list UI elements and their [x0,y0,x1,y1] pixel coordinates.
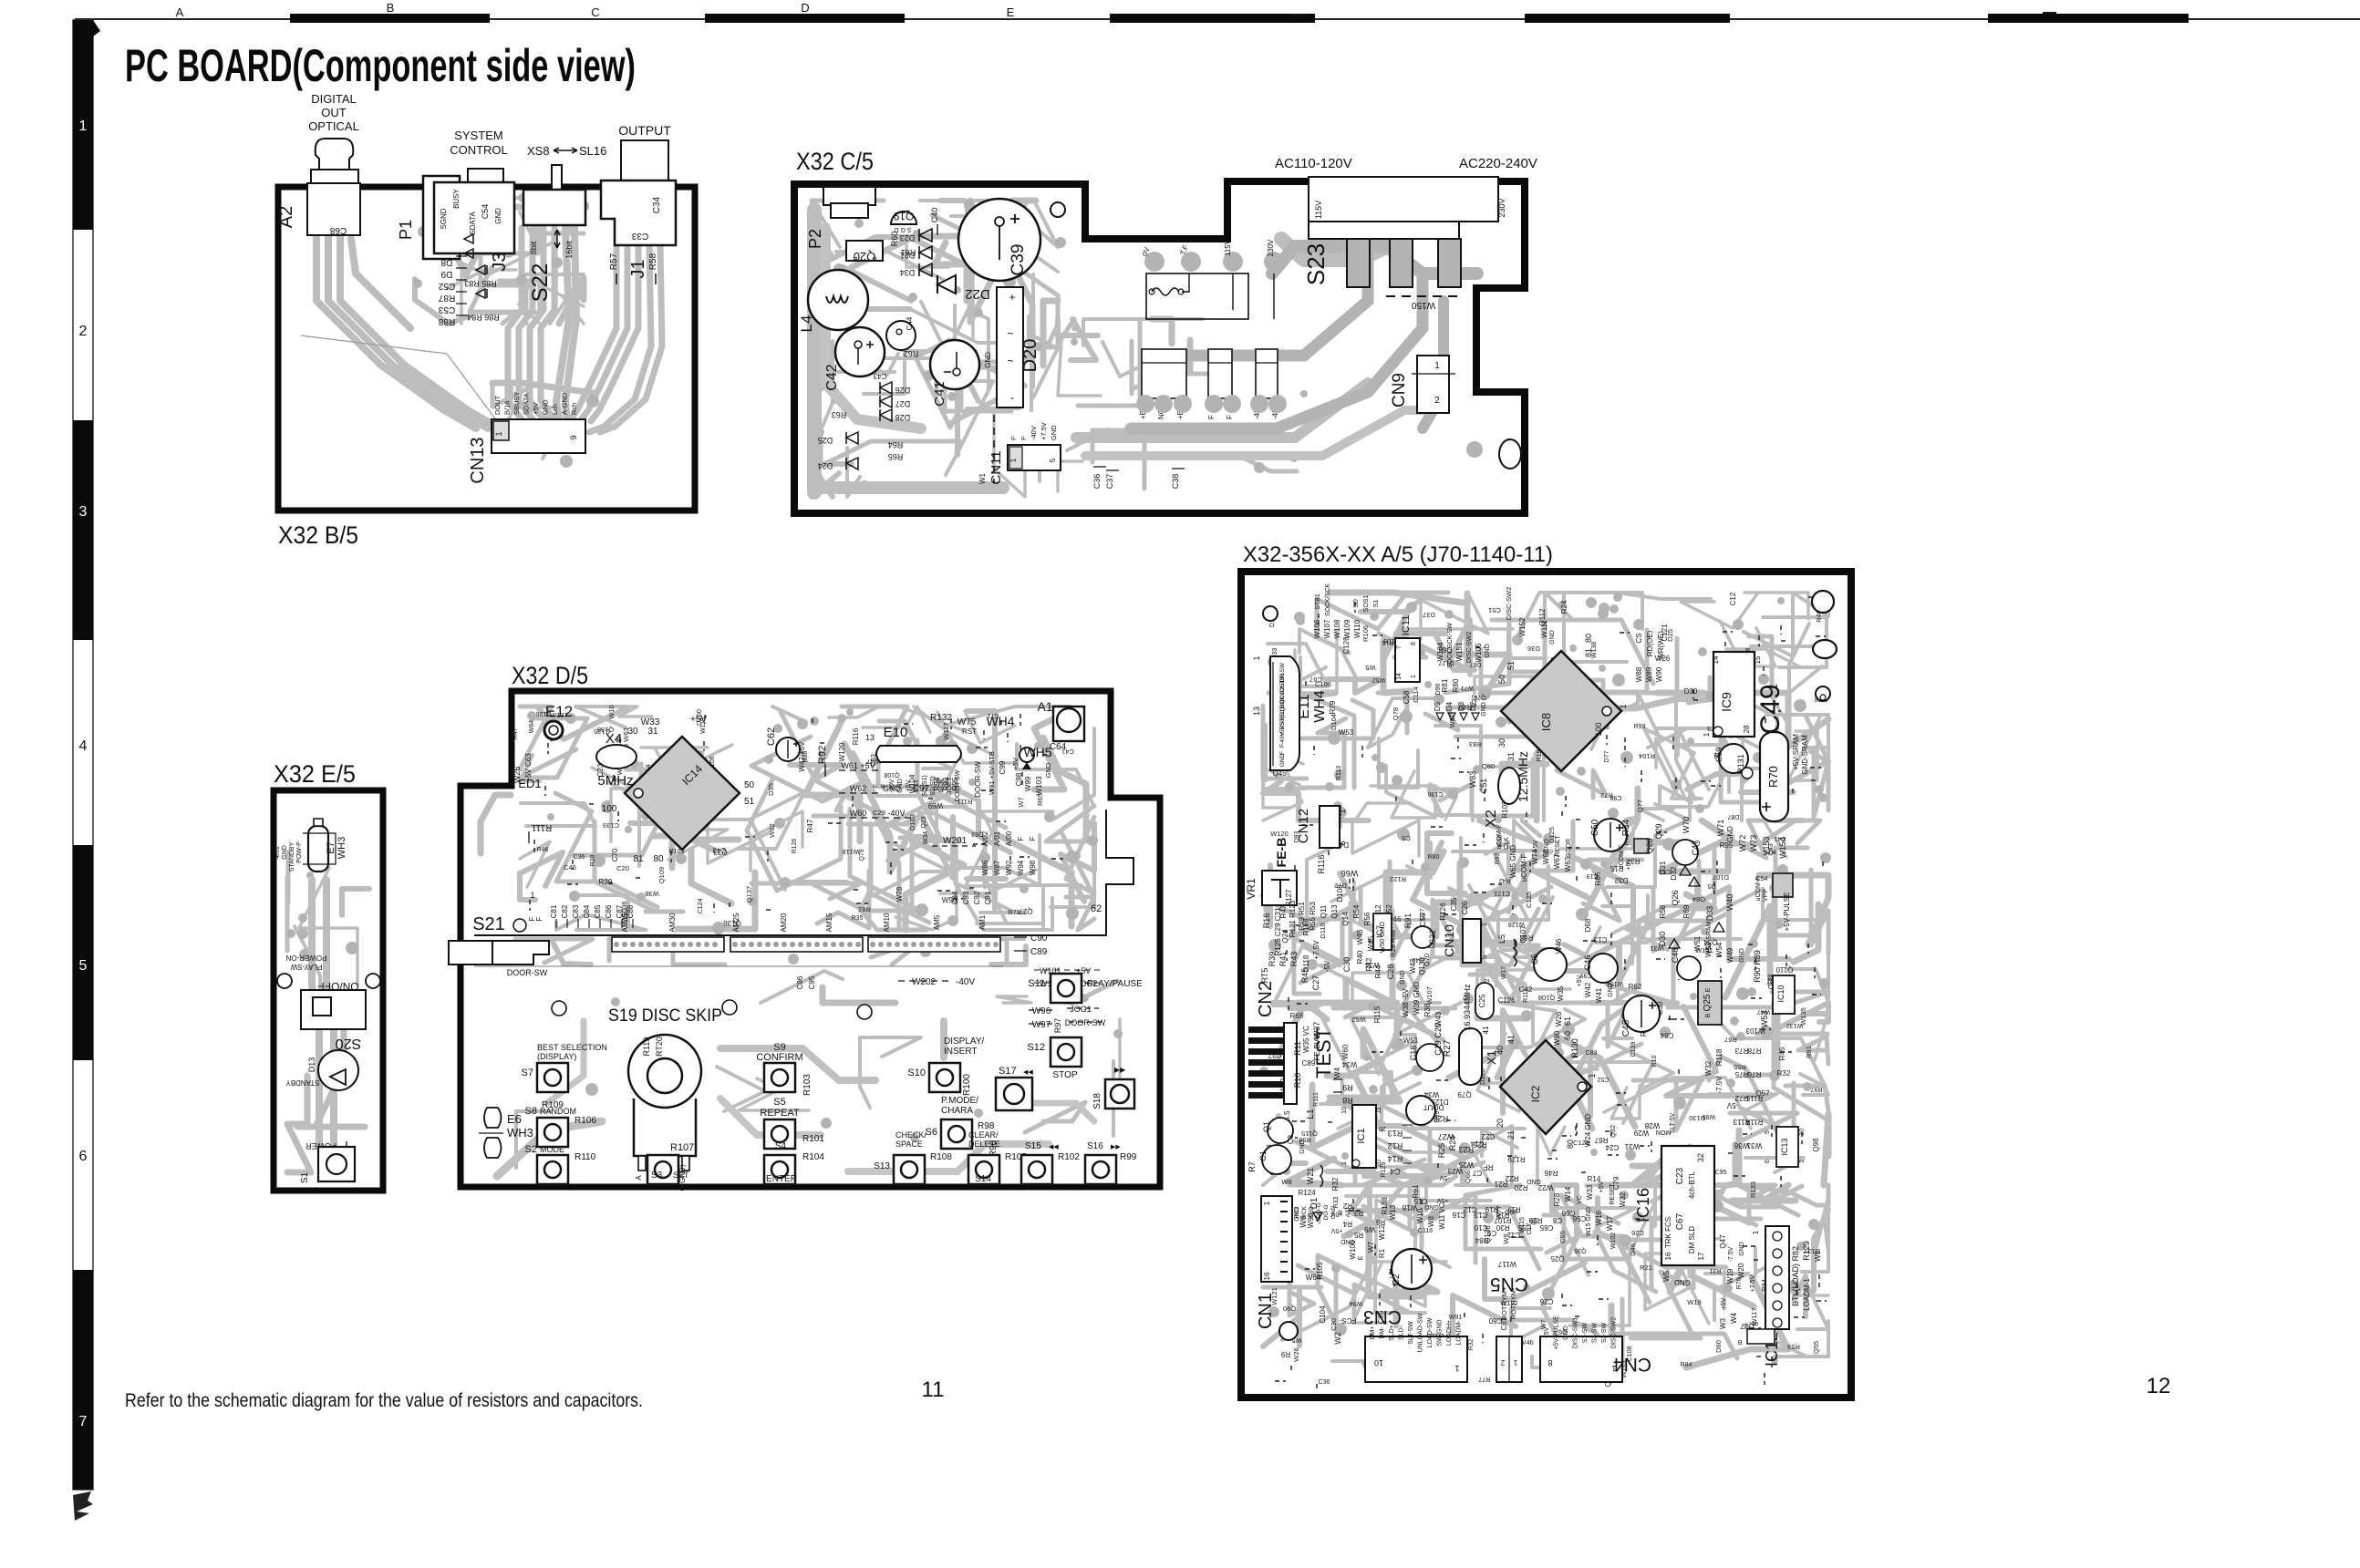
svg-text:D36: D36 [1527,645,1540,653]
svg-text:W43: W43 [1434,1011,1443,1026]
svg-text:Q23: Q23 [921,816,927,828]
svg-text:CLEAR/: CLEAR/ [968,1130,999,1140]
svg-text:STB1: STB1 [1315,593,1321,610]
pads [277,974,292,988]
svg-text:W60: W60 [1341,1044,1350,1059]
svg-text:13: 13 [1252,707,1261,716]
svg-text:S13: S13 [874,1161,890,1171]
svg-text:SOCK/SCK: SOCK/SCK [1325,583,1331,617]
svg-text:Q137: Q137 [745,886,753,903]
C18 C19 C20 [1416,1044,1444,1071]
svg-text:C70: C70 [611,848,619,861]
svg-text:C124: C124 [698,899,704,914]
svg-text:C24: C24 [1605,1143,1619,1151]
svg-text:R6: R6 [1375,1218,1385,1226]
svg-text:-7.5V: -7.5V [1715,1076,1723,1094]
svg-text:R22: R22 [1505,1174,1518,1182]
svg-text:R10: R10 [1651,1055,1658,1067]
svg-text:C51: C51 [1479,779,1488,794]
svg-text:9: 9 [569,435,578,439]
svg-text:E10: E10 [884,725,908,740]
svg-text:F: F [1029,836,1037,841]
svg-text:+5V-PULSE: +5V-PULSE [1554,1315,1560,1350]
svg-text:+5V: +5V [1011,758,1020,770]
svg-text:R1: R1 [1378,1248,1386,1258]
C47 cap [1672,840,1698,865]
svg-text:Q28: Q28 [1645,838,1654,853]
svg-text:R101: R101 [802,1134,824,1144]
connector P1 [423,176,460,259]
index segment 5 [73,845,93,1060]
svg-text:W3: W3 [1719,1317,1727,1329]
svg-text:10: 10 [1799,1129,1806,1136]
svg-text:C61: C61 [1500,1316,1508,1330]
system control DIN connector J3 [468,169,503,184]
svg-text:GND: GND [1050,425,1058,440]
svg-text:+5V: +5V [1533,840,1539,851]
svg-text:B: B [387,1,395,15]
svg-text:M: M [1338,1210,1344,1214]
rotary encoder RT20 [628,1035,701,1108]
svg-text:C59: C59 [1714,748,1723,763]
svg-text:J3: J3 [490,252,510,271]
svg-text:DOOR-SW: DOOR-SW [1065,1018,1106,1027]
svg-text:R55: R55 [1734,1063,1746,1071]
svg-text:D8: D8 [440,257,452,267]
svg-text:W104: W104 [1436,642,1444,661]
svg-text:2: 2 [1500,1358,1505,1367]
svg-text:R53: R53 [1787,1343,1800,1351]
svg-text:C2: C2 [1392,1274,1402,1285]
svg-text:C35: C35 [1450,897,1458,911]
switch S4 ENTER [764,1155,795,1184]
svg-text:C64: C64 [1660,1031,1673,1039]
wire traces C/5 [812,200,1477,497]
connector E6 WH3 [484,1108,502,1128]
svg-text:CONTROL: CONTROL [450,143,508,157]
svg-text:CS: CS [1635,633,1643,643]
svg-text:20: 20 [1379,1125,1386,1131]
svg-text:R16: R16 [1262,913,1271,929]
svg-text:W26: W26 [1292,1347,1300,1361]
svg-text:20: 20 [1376,1160,1382,1167]
svg-text:D60: D60 [1714,1340,1723,1353]
svg-text:S16: S16 [1087,1141,1103,1151]
svg-text:S2: S2 [525,1144,537,1155]
svg-text:C94: C94 [951,891,959,904]
svg-text:R85 R83: R85 R83 [464,279,497,288]
svg-text:R12: R12 [1388,1141,1403,1150]
svg-text:C81: C81 [550,904,558,918]
svg-text:WH5: WH5 [1023,745,1051,759]
svg-text:C3: C3 [1287,1134,1295,1144]
svg-text:E: E [1007,5,1015,19]
svg-text:31: 31 [1506,752,1516,761]
svg-text:R11: R11 [1293,1041,1302,1056]
svg-text:W91 +5V-STB: W91 +5V-STB [988,751,996,795]
svg-text:R129: R129 [1507,1155,1526,1163]
svg-text:R83: R83 [1469,740,1482,748]
svg-text:D27: D27 [895,399,911,408]
svg-text:R10: R10 [1293,1073,1302,1088]
svg-text:Q14: Q14 [1341,912,1350,926]
svg-text:GND: GND [1549,630,1556,645]
svg-text:VC: VC [1577,1195,1583,1204]
svg-text:SLT-SW: SLT-SW [1408,1321,1414,1345]
svg-text:1: 1 [1588,1073,1597,1078]
svg-text:C90: C90 [1030,934,1048,944]
svg-text:SW-GND: SW-GND [1437,1319,1444,1346]
svg-text:S15: S15 [1025,1141,1041,1151]
svg-text:AC110-120V: AC110-120V [1275,156,1352,171]
svg-text:C65: C65 [1539,1223,1553,1232]
IC13 [1776,1127,1798,1167]
svg-text:SO(S1): SO(S1) [922,775,928,796]
svg-text:R32: R32 [1331,1177,1340,1191]
svg-text:C20: C20 [616,864,629,872]
svg-text:+5V: +5V [1436,1197,1448,1203]
corner wedge [73,20,100,36]
svg-text:W111: W111 [1540,620,1548,638]
svg-text:R122: R122 [1390,875,1406,883]
svg-text:W40: W40 [1725,894,1734,912]
svg-text:R104: R104 [1639,752,1655,760]
svg-text:IC16: IC16 [1634,1188,1652,1222]
svg-text:A1: A1 [1037,699,1052,714]
svg-text:W19: W19 [1687,1298,1701,1306]
svg-text:-40V: -40V [889,779,895,792]
svg-text:MON: MON [1656,1129,1671,1135]
svg-text:S1: S1 [300,1171,310,1183]
svg-text:VR1: VR1 [1245,878,1258,900]
C32 cap [1412,926,1434,948]
svg-text:A2: A2 [276,206,296,228]
svg-text:R124: R124 [1298,1189,1316,1197]
svg-text:C126: C126 [1497,996,1516,1005]
svg-text:CN2: CN2 [1256,981,1276,1017]
svg-text:W61 +5V: W61 +5V [841,761,875,770]
svg-text:R90 R89: R90 R89 [1753,950,1762,983]
svg-text:SPACE: SPACE [895,1140,923,1149]
svg-text:Q66: Q66 [1464,1171,1472,1183]
svg-text:P1: P1 [397,220,415,240]
svg-text:E: E [1358,1255,1364,1260]
svg-text:W42: W42 [1584,982,1592,997]
svg-text:C36: C36 [574,854,585,861]
svg-text:R3: R3 [1353,1209,1363,1217]
svg-text:1: 1 [1341,1161,1348,1165]
svg-text:DOOR-SW: DOOR-SW [507,968,548,977]
svg-text:W25: W25 [1458,1161,1474,1169]
svg-text:Refer to the schematic diagram: Refer to the schematic diagram for the v… [125,1390,643,1411]
svg-text:Q13: Q13 [1330,904,1339,919]
svg-text:A/02: A/02 [981,830,989,846]
CN3 [1365,1336,1467,1382]
svg-text:F: F [535,916,543,921]
svg-text:X32-356X-XX A/5 (J70-1140-11): X32-356X-XX A/5 (J70-1140-11) [1243,542,1553,567]
svg-text:R21: R21 [1640,1264,1652,1272]
svg-text:SCOR: SCOR [1566,839,1572,857]
svg-text:R80: R80 [1452,678,1460,692]
svg-text:GND: GND [984,352,992,368]
svg-text:51: 51 [1506,661,1516,670]
svg-text:RANDOM: RANDOM [540,1107,576,1116]
svg-text:Q77: Q77 [1636,799,1644,812]
svg-text:D34: D34 [900,268,916,277]
svg-text:RD(OE): RD(OE) [1646,630,1654,656]
svg-text:8: 8 [1411,642,1417,645]
svg-text:61: 61 [1563,1016,1572,1026]
svg-text:F: F [1017,836,1025,841]
svg-text:100: 100 [602,804,617,814]
svg-text:W151: W151 [1455,642,1464,661]
board outline X32 C/5 [794,181,1525,513]
svg-text:Q33: Q33 [713,848,728,856]
svg-text:W88: W88 [1635,666,1643,682]
svg-text:AM1: AM1 [978,914,987,930]
S23 prongs [1347,239,1370,287]
svg-text:X32 C/5: X32 C/5 [796,148,874,175]
svg-text:C84: C84 [583,904,591,918]
svg-text:F: F [528,916,536,921]
svg-text:A: A [635,1175,643,1181]
svg-text:41: 41 [1506,1035,1516,1044]
left index bar [73,20,93,1490]
svg-text:R113: R113 [1336,766,1342,780]
svg-text:1: 1 [1752,1230,1760,1234]
svg-text:R13: R13 [1388,1129,1403,1138]
svg-text:C67: C67 [1675,1212,1685,1230]
CN4 [1540,1336,1622,1382]
svg-text:C133: C133 [603,821,619,830]
svg-text:R132: R132 [930,713,952,723]
svg-text:R38: R38 [1423,1003,1432,1016]
svg-text:W22: W22 [1537,1183,1553,1191]
svg-text:D104: D104 [1330,714,1338,730]
svg-text:W201: W201 [943,836,968,846]
svg-text:GND: GND [1481,702,1487,717]
svg-text:E: E [1705,987,1712,992]
diode D13 standby LED [318,1050,358,1090]
svg-text:R63: R63 [832,410,847,419]
svg-text:A-GND: A-GND [561,392,569,415]
hole [1051,202,1065,217]
svg-text:8: 8 [1547,1358,1552,1367]
svg-text:R64: R64 [888,440,904,449]
svg-text:Rch: Rch [570,403,578,415]
svg-text:R84: R84 [1475,1236,1488,1244]
pad E12 [544,721,563,739]
svg-text:GND: GND [1563,1326,1569,1340]
svg-text:C28: C28 [1386,965,1395,980]
svg-text:C26: C26 [1631,1229,1644,1237]
svg-text:W39 GND: W39 GND [1413,982,1421,1016]
svg-text:W15 GND: W15 GND [1586,1207,1592,1236]
svg-text:REPEAT: REPEAT [760,1108,799,1119]
svg-text:W94: W94 [1017,860,1025,875]
svg-text:F: F [1009,436,1018,440]
svg-text:4/01: 4/01 [274,846,281,859]
svg-text:X4: X4 [606,731,622,747]
svg-text:D26: D26 [895,386,911,395]
svg-text:C85: C85 [594,904,602,918]
svg-text:W90: W90 [1553,1030,1561,1046]
svg-text:+5V: +5V [1544,1326,1550,1338]
svg-text:D21: D21 [900,251,916,260]
svg-text:C96: C96 [796,975,804,989]
svg-text:7: 7 [1396,645,1403,649]
svg-text:◀◀: ◀◀ [1023,1069,1033,1076]
svg-text:C36: C36 [1092,474,1102,490]
svg-text:6: 6 [79,1149,88,1164]
svg-text:W34: W34 [1423,1090,1439,1099]
svg-text:R46: R46 [537,847,549,853]
svg-text:16: 16 [1664,1252,1672,1260]
svg-text:Q108: Q108 [884,771,899,778]
svg-text:Q98: Q98 [1812,1138,1820,1152]
svg-text:GND: GND [1674,1278,1691,1286]
svg-text:AC220-240V: AC220-240V [1459,156,1537,171]
svg-text:1: 1 [1009,458,1018,462]
svg-text:3: 3 [79,504,88,520]
svg-text:GND: GND [1739,1242,1745,1256]
svg-text:R86 R84: R86 R84 [467,313,500,322]
voltage selector S23 [1309,177,1498,222]
svg-text:+5V: +5V [906,779,912,791]
svg-text:SCK: SCK [938,779,945,792]
capacitor C39 [958,199,1040,281]
svg-text:-5V: -5V [1726,1101,1738,1109]
svg-text:Q19: Q19 [893,210,914,222]
svg-text:C68: C68 [329,225,347,235]
svg-text:PC BOARD(Component side view): PC BOARD(Component side view) [125,40,636,91]
svg-text:W71: W71 [1461,685,1475,691]
svg-text:W43: W43 [1409,958,1417,974]
jumper W150 [1386,295,1459,297]
svg-text:R28: R28 [590,854,596,866]
svg-text:DIGITAL: DIGITAL [311,92,357,106]
svg-text:R49 R51: R49 R51 [1298,902,1306,931]
svg-text:50: 50 [744,780,755,790]
svg-text:S10: S10 [907,1068,926,1078]
svg-text:1: 1 [1434,361,1440,371]
svg-text:C: C [591,5,599,19]
svg-text:R57: R57 [609,253,619,270]
svg-text:W52: W52 [1372,676,1386,683]
svg-text:C93: C93 [962,891,970,904]
svg-text:C38: C38 [1171,474,1180,490]
svg-text:+5V: +5V [1330,1227,1342,1233]
svg-text:C136: C136 [1428,790,1444,797]
svg-text:IC8: IC8 [1539,713,1553,731]
svg-text:W66: W66 [1341,869,1359,878]
svg-text:+5V: +5V [690,715,707,725]
C1 R7 [1262,1145,1291,1174]
svg-text:-40V: -40V [1279,731,1286,744]
C50 cap [1594,819,1627,851]
svg-text:30: 30 [1497,738,1506,748]
svg-text:RT20: RT20 [655,1037,664,1057]
svg-text:W51: W51 [1693,935,1702,951]
svg-text:DM-: DM- [1380,1326,1386,1339]
svg-text:SDATA: SDATA [523,393,531,415]
svg-text:+7.5V: +7.5V [1312,940,1320,960]
svg-text:LOADM-1: LOADM-1 [1803,1278,1811,1311]
svg-text:C56: C56 [1572,1214,1586,1222]
svg-text:C50: C50 [1590,819,1600,836]
svg-text:R32: R32 [1777,1069,1791,1078]
svg-text:W49: W49 [1726,947,1734,963]
svg-text:F: F [1020,436,1028,440]
svg-text:Q90: Q90 [1283,1305,1296,1313]
svg-text:R138: R138 [1381,1197,1389,1215]
svg-text:Q11: Q11 [1320,904,1328,918]
svg-text:GND: GND [542,399,550,415]
svg-text:GND: GND [1400,970,1406,985]
svg-text:R54: R54 [1352,904,1361,918]
svg-text:C34: C34 [652,196,662,213]
svg-text:1: 1 [494,431,503,436]
svg-text:C114: C114 [1412,686,1420,702]
svg-text:2: 2 [79,324,88,339]
svg-text:GND: GND [1279,753,1286,767]
svg-text:WH3: WH3 [336,837,347,859]
svg-text:C10: C10 [1474,1223,1487,1232]
svg-text:4ch-BTL: 4ch-BTL [1688,1171,1696,1199]
switch S22 [552,165,562,191]
svg-text:R102: R102 [1058,1152,1080,1162]
svg-text:W108: W108 [1333,619,1341,638]
svg-text:R77: R77 [1478,1376,1490,1382]
svg-text:C86: C86 [605,904,613,918]
svg-text:11: 11 [1376,1107,1382,1113]
svg-text:D5: D5 [1434,701,1442,711]
svg-text:Q26: Q26 [1671,890,1680,905]
svg-text:uCOM-F: uCOM-F [1520,854,1528,882]
svg-text:W36: W36 [1734,1141,1749,1150]
svg-text:R25: R25 [1437,1143,1446,1159]
svg-text:W152: W152 [1518,617,1527,636]
svg-text:W103: W103 [1035,776,1043,795]
svg-text:R91: R91 [1805,1046,1813,1058]
svg-text:Q84: Q84 [1692,895,1705,903]
svg-text:W48: W48 [1356,929,1364,944]
svg-text:Q110: Q110 [1775,965,1794,974]
svg-text:1: 1 [1513,1358,1517,1367]
svg-text:D72: D72 [1334,882,1347,890]
svg-text:D25: D25 [1666,629,1674,642]
svg-text:W120: W120 [838,742,846,761]
svg-text:(DISPLAY): (DISPLAY) [537,1052,576,1061]
svg-text:POW-P: POW-P [296,841,303,863]
svg-text:62: 62 [1091,903,1102,914]
svg-text:W54: W54 [1715,942,1723,957]
svg-text:Q70: Q70 [1474,694,1485,700]
svg-text:R76: R76 [1736,1277,1743,1289]
svg-text:R58: R58 [1659,904,1667,918]
svg-text:W7: W7 [1017,797,1025,807]
svg-text:R107: R107 [670,1142,694,1153]
svg-text:C4: C4 [1390,1167,1401,1176]
svg-text:16bit: 16bit [564,241,574,259]
svg-text:BEST SELECTION: BEST SELECTION [537,1043,607,1052]
svg-text:C104: C104 [1319,1305,1327,1324]
svg-text:D24: D24 [818,461,833,470]
svg-text:S23: S23 [1302,243,1330,285]
thin routing line [301,335,497,421]
svg-text:D22: D22 [965,286,990,302]
svg-text:R116: R116 [852,727,860,745]
